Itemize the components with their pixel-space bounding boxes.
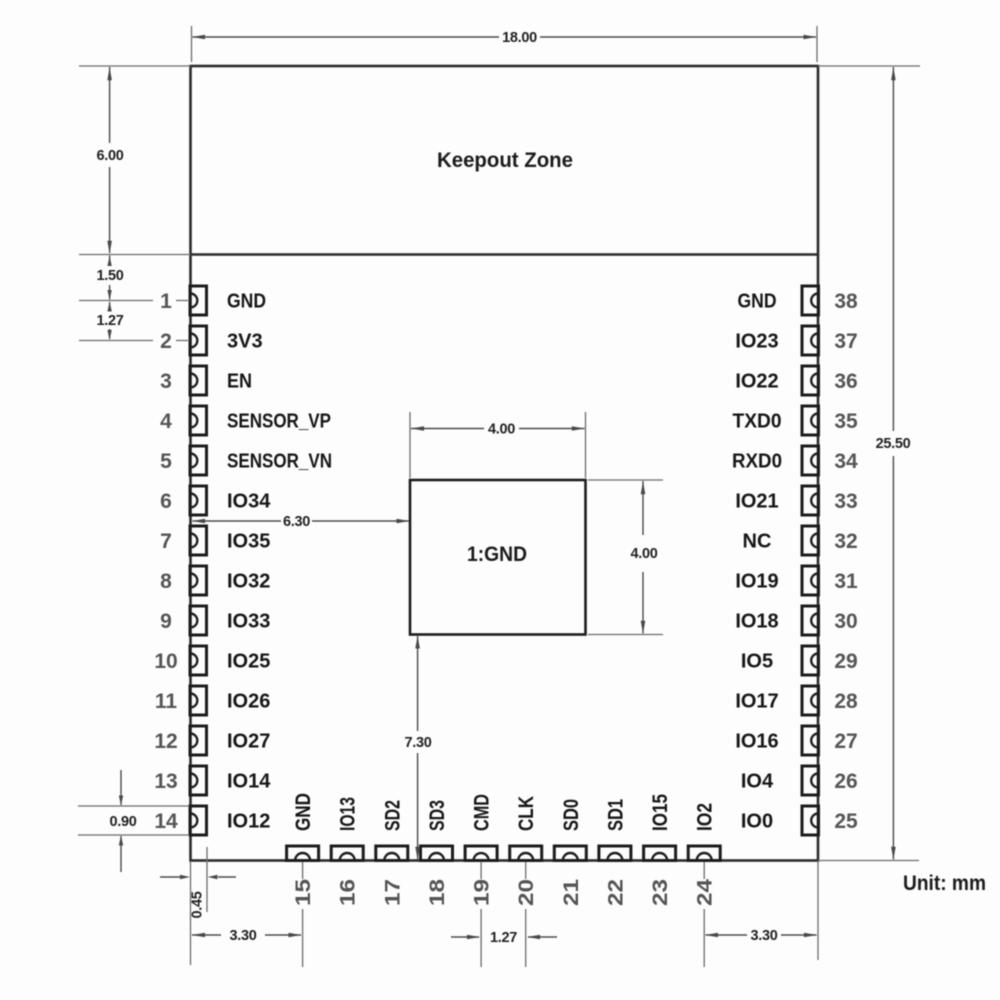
center thermal pad 1:GND — [410, 480, 586, 635]
svg-text:25: 25 — [834, 810, 858, 833]
pad pin 20 (CLK) — [510, 846, 542, 861]
svg-text:NC: NC — [743, 530, 772, 552]
pad pin 12 (IO27) — [190, 726, 207, 755]
svg-text:3V3: 3V3 — [227, 330, 263, 352]
pad pin 24 (IO2) — [688, 846, 720, 861]
svg-text:0.45: 0.45 — [190, 891, 206, 918]
svg-text:27: 27 — [834, 730, 857, 753]
svg-text:2: 2 — [160, 330, 172, 353]
svg-text:28: 28 — [834, 690, 858, 713]
svg-text:9: 9 — [160, 610, 172, 633]
svg-text:0.90: 0.90 — [109, 814, 136, 830]
svg-text:SD0: SD0 — [559, 799, 583, 831]
pad pin 29 (IO5) — [802, 646, 819, 675]
svg-text:6: 6 — [160, 490, 172, 513]
svg-text:6.30: 6.30 — [283, 514, 310, 530]
pad pin 35 (TXD0) — [802, 406, 819, 435]
pad pin 14 (IO12) — [190, 806, 207, 835]
svg-text:IO17: IO17 — [735, 690, 778, 712]
svg-text:12: 12 — [154, 730, 177, 753]
extension line pin 2 — [79, 340, 153, 342]
keepout zone boundary line — [191, 253, 819, 255]
svg-text:IO19: IO19 — [735, 570, 778, 592]
svg-text:34: 34 — [834, 450, 858, 473]
svg-text:4: 4 — [160, 410, 172, 433]
svg-text:7.30: 7.30 — [404, 735, 431, 751]
svg-text:IO5: IO5 — [741, 650, 773, 672]
pad pin 5 (SENSOR_VN) — [190, 446, 207, 475]
svg-text:IO35: IO35 — [227, 530, 270, 552]
svg-text:IO32: IO32 — [227, 570, 270, 592]
svg-text:33: 33 — [834, 490, 857, 513]
svg-text:SD1: SD1 — [603, 799, 627, 831]
svg-text:25.50: 25.50 — [876, 436, 911, 452]
svg-text:29: 29 — [834, 650, 857, 673]
svg-text:SD3: SD3 — [425, 800, 449, 831]
svg-text:38: 38 — [834, 290, 858, 313]
svg-text:11: 11 — [155, 690, 178, 713]
pad pin 23 (IO15) — [644, 846, 676, 861]
svg-text:22: 22 — [604, 879, 627, 906]
svg-text:IO18: IO18 — [735, 610, 778, 632]
svg-text:IO15: IO15 — [648, 794, 672, 831]
svg-text:5: 5 — [160, 450, 172, 473]
dimension 18.00 module width — [191, 26, 193, 62]
pad pin 2 (3V3) — [190, 326, 207, 355]
pad pin 33 (IO21) — [802, 486, 819, 515]
svg-text:IO26: IO26 — [227, 690, 270, 712]
pad pin 17 (SD2) — [376, 846, 408, 861]
svg-text:1.27: 1.27 — [96, 313, 123, 329]
svg-text:SENSOR_VN: SENSOR_VN — [227, 450, 332, 472]
dimension 7.30 center pad vertical offset — [417, 636, 419, 731]
pad pin 15 (GND) — [287, 846, 319, 861]
extension line pin 20 — [525, 862, 527, 879]
pad pin 11 (IO26) — [190, 686, 207, 715]
svg-text:3.30: 3.30 — [750, 928, 777, 944]
pad pin 4 (SENSOR_VP) — [190, 406, 207, 435]
svg-text:EN: EN — [227, 370, 252, 392]
dimension 25.50 module height — [818, 65, 920, 67]
pad pin 34 (RXD0) — [802, 446, 819, 475]
extension line pin 19 — [480, 862, 482, 879]
svg-text:15: 15 — [292, 879, 315, 906]
svg-text:14: 14 — [154, 810, 178, 833]
svg-text:IO23: IO23 — [735, 330, 778, 352]
svg-text:IO13: IO13 — [336, 797, 360, 831]
svg-text:20: 20 — [515, 879, 538, 906]
pad pin 6 (IO34) — [190, 486, 207, 515]
pad pin 21 (SD0) — [554, 846, 586, 861]
module outline — [191, 66, 819, 861]
extension line pin 1 — [79, 300, 153, 302]
svg-text:CMD: CMD — [470, 794, 494, 831]
dimension 6.30 center pad offset — [193, 520, 282, 522]
pad pin 30 (IO18) — [802, 606, 819, 635]
svg-text:23: 23 — [649, 879, 672, 906]
pad pin 7 (IO35) — [190, 526, 207, 555]
svg-text:IO27: IO27 — [227, 730, 270, 752]
svg-text:13: 13 — [154, 770, 177, 793]
svg-text:6.00: 6.00 — [96, 148, 123, 164]
svg-text:IO2: IO2 — [693, 803, 717, 831]
pad pin 10 (IO25) — [190, 646, 207, 675]
pad pin 27 (IO16) — [802, 726, 819, 755]
pad pin 1 (GND) — [190, 286, 207, 315]
svg-text:IO25: IO25 — [227, 650, 270, 672]
svg-text:Keepout Zone: Keepout Zone — [437, 148, 573, 172]
pad pin 32 (NC) — [802, 526, 819, 555]
pad pin 28 (IO17) — [802, 686, 819, 715]
pad pin 31 (IO19) — [802, 566, 819, 595]
svg-text:RXD0: RXD0 — [732, 450, 782, 472]
dimension 4.00 center pad width — [409, 412, 411, 478]
svg-text:IO0: IO0 — [741, 810, 773, 832]
svg-text:IO34: IO34 — [227, 490, 271, 512]
pad pin 36 (IO22) — [802, 366, 819, 395]
extension line pin 24 — [703, 862, 705, 879]
pad pin 8 (IO32) — [190, 566, 207, 595]
svg-text:IO22: IO22 — [735, 370, 778, 392]
pad pin 16 (IO13) — [331, 846, 363, 861]
extension line right edge bottom — [817, 862, 819, 960]
svg-text:1.50: 1.50 — [96, 268, 123, 284]
svg-text:17: 17 — [381, 879, 404, 906]
svg-text:4.00: 4.00 — [488, 422, 515, 438]
svg-text:21: 21 — [560, 879, 583, 906]
svg-text:IO4: IO4 — [741, 770, 774, 792]
svg-text:18.00: 18.00 — [502, 30, 537, 46]
svg-text:1:GND: 1:GND — [467, 542, 527, 566]
dimension 0.90 pad height — [78, 805, 189, 807]
svg-text:18: 18 — [426, 879, 449, 906]
svg-text:16: 16 — [337, 879, 360, 906]
svg-text:SD2: SD2 — [380, 800, 404, 831]
svg-text:GND: GND — [227, 290, 266, 312]
pad pin 25 (IO0) — [802, 806, 819, 835]
svg-text:IO33: IO33 — [227, 610, 270, 632]
dimension 4.00 center pad height — [588, 479, 663, 481]
dimension 1.27 bottom pitch — [451, 936, 479, 938]
dimension 1.50 — [109, 256, 111, 267]
svg-text:1.27: 1.27 — [490, 930, 517, 946]
svg-text:26: 26 — [834, 770, 857, 793]
svg-text:19: 19 — [471, 879, 494, 906]
svg-text:IO21: IO21 — [735, 490, 778, 512]
svg-text:24: 24 — [694, 879, 717, 906]
svg-text:IO12: IO12 — [227, 810, 270, 832]
svg-text:GND: GND — [291, 793, 315, 831]
svg-text:32: 32 — [834, 530, 857, 553]
pad pin 3 (EN) — [190, 366, 207, 395]
svg-text:35: 35 — [834, 410, 858, 433]
pad pin 38 (GND) — [802, 286, 819, 315]
svg-text:30: 30 — [834, 610, 857, 633]
svg-text:4.00: 4.00 — [630, 546, 657, 562]
svg-text:SENSOR_VP: SENSOR_VP — [227, 410, 331, 432]
svg-text:8: 8 — [160, 570, 172, 593]
svg-text:IO16: IO16 — [735, 730, 778, 752]
dimension 3.30 left — [192, 934, 221, 936]
dimension 6.00 keepout height — [79, 65, 191, 67]
svg-text:Unit: mm: Unit: mm — [903, 871, 986, 895]
svg-text:7: 7 — [160, 530, 172, 553]
dimension 0.45 pad stub — [190, 862, 192, 965]
pad pin 22 (SD1) — [599, 846, 631, 861]
pad pin 18 (SD3) — [421, 846, 453, 861]
svg-text:3.30: 3.30 — [229, 928, 256, 944]
svg-text:TXD0: TXD0 — [733, 410, 782, 432]
svg-text:CLK: CLK — [514, 796, 538, 831]
pad pin 26 (IO4) — [802, 766, 819, 795]
svg-text:10: 10 — [154, 650, 177, 673]
svg-text:3: 3 — [160, 370, 172, 393]
dimension 3.30 right — [706, 934, 748, 936]
dimension 1.27 pin pitch — [109, 302, 111, 310]
svg-text:36: 36 — [834, 370, 857, 393]
pad pin 9 (IO33) — [190, 606, 207, 635]
extension line pin 15 — [302, 862, 304, 879]
svg-text:IO14: IO14 — [227, 770, 271, 792]
svg-text:GND: GND — [738, 290, 777, 312]
pad pin 19 (CMD) — [465, 846, 497, 861]
pad pin 37 (IO23) — [802, 326, 819, 355]
svg-text:37: 37 — [834, 330, 857, 353]
svg-text:31: 31 — [834, 570, 858, 593]
pad pin 13 (IO14) — [190, 766, 207, 795]
svg-text:1: 1 — [160, 290, 172, 313]
